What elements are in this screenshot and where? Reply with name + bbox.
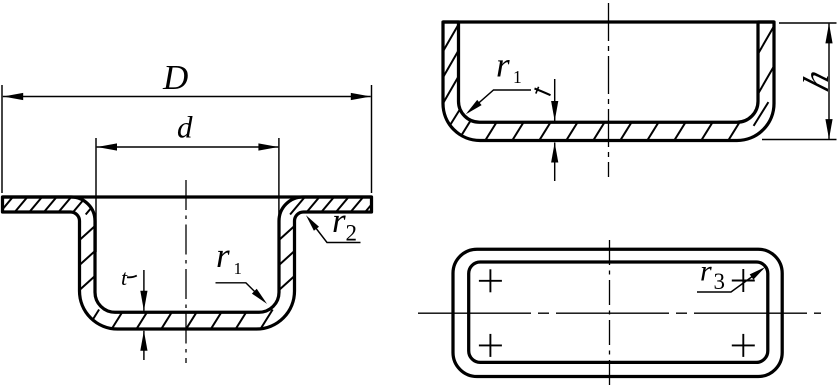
svg-text:2: 2 bbox=[346, 221, 358, 246]
svg-text:r: r bbox=[332, 201, 346, 240]
centerline cup side bbox=[608, 3, 610, 177]
center mark 3 bbox=[732, 269, 755, 292]
svg-text:r: r bbox=[700, 255, 712, 288]
svg-text:t: t bbox=[121, 265, 128, 290]
dimension h bbox=[779, 22, 837, 24]
dimension t left bbox=[143, 270, 145, 311]
svg-text:d: d bbox=[177, 110, 193, 145]
svg-text:1: 1 bbox=[234, 259, 243, 278]
label t cup bbox=[535, 89, 551, 96]
dimension D bbox=[1, 85, 3, 193]
rim line bbox=[3, 195, 372, 198]
dimension d bbox=[95, 138, 97, 252]
svg-text:D: D bbox=[162, 58, 188, 97]
plan view inner edge bbox=[469, 262, 768, 362]
center mark 4 bbox=[732, 334, 755, 357]
dimension t cup bbox=[554, 79, 556, 121]
rim line top right bbox=[443, 20, 774, 23]
svg-text:3: 3 bbox=[714, 269, 726, 294]
center mark 2 bbox=[479, 334, 502, 357]
centerline left figure bbox=[185, 180, 187, 363]
plan horizontal centerline bbox=[418, 312, 821, 314]
svg-text:r: r bbox=[496, 46, 510, 85]
svg-text:r: r bbox=[216, 236, 230, 275]
center mark 1 bbox=[479, 269, 502, 292]
svg-text:1: 1 bbox=[513, 67, 522, 87]
plan vertical centerline bbox=[609, 240, 611, 390]
plan view outer edge bbox=[453, 249, 782, 376]
